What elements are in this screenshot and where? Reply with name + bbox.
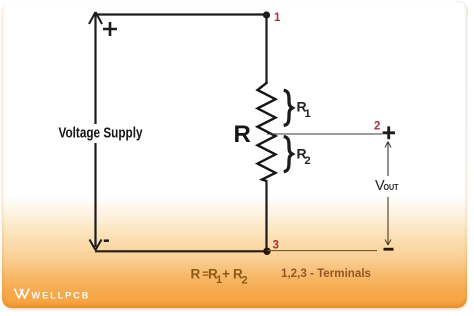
- svg-text:3: 3: [273, 239, 279, 251]
- vout arrowhead down: [385, 240, 391, 246]
- wire wiper tap (resistor to node 2): [267, 133, 382, 135]
- brace R1: [284, 90, 293, 125]
- node 3 junction dot: [263, 248, 270, 255]
- plus sign supply: [103, 22, 117, 36]
- svg-text:2: 2: [305, 155, 311, 167]
- arrow up at supply +: [89, 12, 102, 24]
- arrow down at supply -: [90, 240, 102, 251]
- resistor R (potentiometer body): [258, 82, 276, 181]
- plus sign node 2: [383, 126, 396, 139]
- svg-text:+: +: [222, 267, 230, 282]
- vout arrowhead up: [385, 142, 391, 148]
- wire bottom horizontal (supply - to node 3): [95, 250, 267, 252]
- svg-text:Voltage Supply: Voltage Supply: [59, 126, 143, 142]
- wire left vertical lower (supply -): [94, 143, 96, 247]
- wire left vertical upper (supply +): [94, 13, 96, 124]
- svg-text:R: R: [191, 267, 201, 282]
- svg-text:1: 1: [305, 108, 311, 120]
- svg-text:OUT: OUT: [384, 182, 400, 192]
- svg-text:R: R: [234, 121, 251, 148]
- svg-text:1,2,3 - Terminals: 1,2,3 - Terminals: [281, 266, 371, 280]
- card top-right faint edge: [456, 1, 468, 14]
- vout arrow lower segment: [387, 197, 389, 245]
- svg-text:1: 1: [274, 12, 281, 24]
- wire right vertical upper (node1 to resistor): [265, 15, 267, 84]
- svg-text:WELLPCB: WELLPCB: [32, 290, 91, 300]
- wire right vertical lower (resistor to node 3): [265, 180, 267, 251]
- card right faint edge: [466, 12, 467, 252]
- minus sign supply: [104, 239, 109, 242]
- output terminal tick: [384, 248, 394, 251]
- wire top horizontal (node1 to supply +): [96, 13, 268, 15]
- logo W icon: [15, 289, 29, 298]
- vout arrow upper segment: [387, 142, 389, 176]
- svg-text:2: 2: [242, 275, 248, 287]
- svg-text:2: 2: [374, 120, 380, 132]
- wire node 3 to output terminal (thin): [267, 250, 377, 252]
- node 1 junction dot: [263, 11, 270, 18]
- brace R2: [284, 137, 293, 172]
